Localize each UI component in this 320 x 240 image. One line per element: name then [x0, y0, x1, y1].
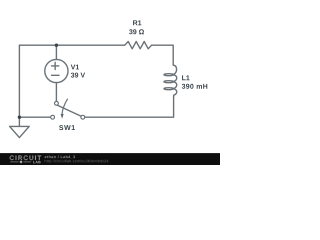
value 39 Ohm — [129, 29, 144, 34]
CircuitLab logo underline left — [10, 161, 18, 163]
inductor L1 — [164, 65, 177, 97]
V1 minus sign — [52, 74, 59, 76]
wire left rail — [18, 45, 20, 117]
CircuitLab logo underline right — [23, 161, 31, 163]
resistor R1 — [125, 42, 152, 49]
value 390 mH — [182, 84, 208, 89]
CircuitLab logo CIRCUIT — [10, 156, 41, 160]
wire ground stub — [18, 117, 20, 126]
wire top rail left (node A) — [19, 44, 124, 46]
voltage source V1 — [45, 59, 68, 82]
switch SW1 actuation arrow — [62, 99, 68, 114]
label R1 — [133, 20, 141, 25]
switch SW1 terminal left — [51, 115, 55, 119]
CircuitLab logo LAB — [33, 161, 40, 163]
switch SW1 terminal right — [81, 115, 85, 119]
watermark url text — [45, 160, 109, 163]
V1 plus sign — [52, 62, 59, 69]
switch SW1 terminal top — [55, 101, 59, 105]
wire switch left terminal to ground node — [19, 116, 50, 118]
label SW1 — [59, 125, 75, 130]
value 39 V — [71, 73, 85, 78]
label V1 — [71, 65, 79, 70]
wire V1 top stub — [55, 45, 57, 59]
wire resistor to top-right corner — [152, 45, 174, 65]
switch SW1 arrowhead — [61, 114, 64, 119]
ground — [10, 126, 30, 137]
watermark user text — [45, 155, 75, 158]
wire right vertical bottom and bottom rail — [85, 97, 174, 117]
node dot bottom (ground junction) — [18, 116, 21, 119]
node dot top (V1 / top rail junction) — [55, 44, 58, 47]
CircuitLab logo bolt dot — [20, 161, 23, 164]
watermark bar — [0, 153, 220, 165]
wire V1 to switch — [55, 83, 57, 102]
label L1 — [182, 75, 190, 80]
switch SW1 lever — [55, 104, 81, 116]
